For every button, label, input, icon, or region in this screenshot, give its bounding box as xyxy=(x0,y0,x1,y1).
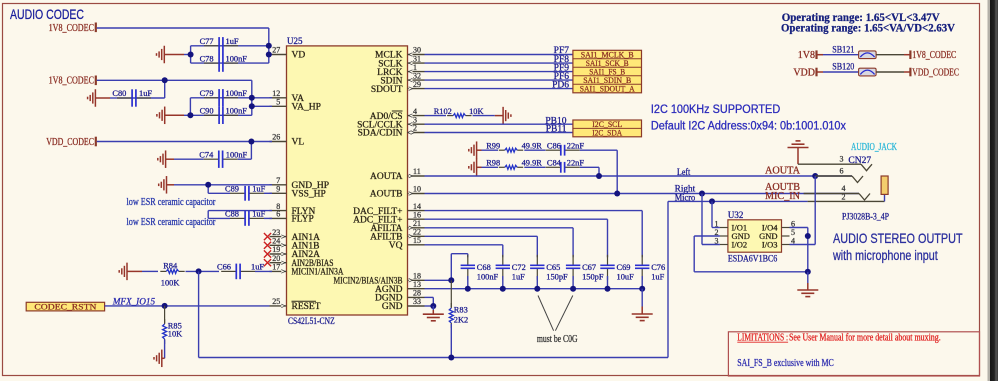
pin 24 AIN1B xyxy=(264,237,320,252)
svg-text:C84: C84 xyxy=(547,159,562,168)
net label PB11 xyxy=(546,125,567,135)
capacitor C69 xyxy=(600,255,634,289)
wire AOUTA line xyxy=(425,175,853,177)
capacitor C68 xyxy=(461,255,499,289)
net label VDD xyxy=(793,67,815,78)
svg-text:VA_HP: VA_HP xyxy=(292,103,321,113)
capacitor C66 xyxy=(217,262,264,279)
svg-text:17: 17 xyxy=(272,263,280,272)
ground (C89) xyxy=(159,176,209,194)
svg-text:U32: U32 xyxy=(728,210,744,220)
ground (C77/C78) xyxy=(157,46,191,64)
svg-text:C78: C78 xyxy=(200,54,214,63)
wire AGND rail xyxy=(425,288,643,290)
svg-text:C90: C90 xyxy=(200,107,214,116)
net label SB120 xyxy=(832,63,854,73)
svg-text:SAI_FS_B exclusive with MC: SAI_FS_B exclusive with MC xyxy=(737,358,834,369)
pin 15 VQ xyxy=(389,236,425,251)
capacitor C86 xyxy=(524,141,584,155)
svg-text:RESET: RESET xyxy=(292,302,321,312)
svg-text:SAI1_SDOUT_A: SAI1_SDOUT_A xyxy=(580,84,636,94)
net label AOUTB xyxy=(765,182,800,193)
wire 1V8 to SB121 xyxy=(817,54,859,56)
port tick VDD xyxy=(815,68,817,77)
svg-text:3: 3 xyxy=(840,155,844,164)
svg-text:with microphone input: with microphone input xyxy=(832,248,938,263)
pin 6 FLYP xyxy=(270,210,314,225)
svg-text:AUDIO STEREO OUTPUT: AUDIO STEREO OUTPUT xyxy=(833,230,963,246)
svg-text:2K2: 2K2 xyxy=(454,316,468,325)
port 1V8_CODEC (VA) xyxy=(49,76,96,87)
svg-text:Left: Left xyxy=(677,167,691,177)
svg-text:1V8_CODEC: 1V8_CODEC xyxy=(49,23,95,34)
svg-text:2: 2 xyxy=(842,192,846,201)
svg-text:1uF: 1uF xyxy=(252,210,265,219)
U25 designator xyxy=(287,36,303,46)
pin 12 VA xyxy=(270,89,305,104)
pin 30 MCLK xyxy=(375,46,424,61)
svg-text:150pF: 150pF xyxy=(582,273,604,282)
svg-text:PD6: PD6 xyxy=(552,80,569,90)
wire GND_HP row xyxy=(208,184,272,186)
svg-text:C72: C72 xyxy=(512,263,526,272)
svg-text:C88: C88 xyxy=(225,210,239,219)
junction dot bias xyxy=(448,277,454,283)
junction dot MFX xyxy=(162,303,168,309)
wire C90 row xyxy=(190,98,251,116)
wire C78 row xyxy=(191,46,269,63)
capacitor C90 xyxy=(200,107,248,125)
svg-text:VDD_CODEC: VDD_CODEC xyxy=(912,67,959,78)
ground (C80) xyxy=(88,89,117,107)
net label PF6 xyxy=(554,72,570,82)
wire U32 pin2 gnd xyxy=(694,236,808,272)
svg-text:49.9R: 49.9R xyxy=(522,159,543,168)
svg-text:10: 10 xyxy=(413,185,421,194)
capacitor C72 xyxy=(496,255,526,289)
svg-text:6: 6 xyxy=(840,167,844,176)
svg-text:See User Manual for more detai: See User Manual for more detail about mu… xyxy=(789,333,941,344)
wire 1V8_CODEC VA rail xyxy=(97,80,252,115)
junction dots 1V8 group xyxy=(188,43,272,58)
wire mic riser xyxy=(667,201,669,357)
wire DGND tie xyxy=(425,297,434,306)
solder bridge SB120 xyxy=(859,68,877,76)
capacitor C78 xyxy=(200,54,248,72)
connector I2C harness box xyxy=(573,119,642,137)
wire VDD_CODEC rail xyxy=(97,141,272,143)
svg-text:2: 2 xyxy=(413,124,417,133)
pin 5 VA_HP xyxy=(270,98,321,113)
svg-text:C89: C89 xyxy=(225,185,239,194)
svg-text:PJ3028B-3_4P: PJ3028B-3_4P xyxy=(842,212,889,222)
svg-text:R83: R83 xyxy=(454,306,468,315)
pin 8 FLYN xyxy=(270,202,316,217)
U32 value ESDA6V1BC6 xyxy=(728,255,778,265)
resistor R85 xyxy=(163,306,183,344)
wire U32 pin4 to AOUTA xyxy=(790,176,816,245)
pin 17 MICIN1/AIN3A xyxy=(270,263,344,278)
capacitor C84 xyxy=(524,159,584,173)
svg-text:22nF: 22nF xyxy=(567,141,585,150)
wire ADC_FILT+ to C69 xyxy=(425,219,608,257)
net label Left xyxy=(677,167,691,177)
capacitor C80 xyxy=(112,80,164,106)
ground (R98) xyxy=(469,159,482,177)
pin 29 SDOUT xyxy=(371,80,425,95)
connector SAI1 harness box xyxy=(573,50,642,94)
capacitor C77 xyxy=(200,37,239,55)
svg-text:11: 11 xyxy=(413,167,421,176)
wire jack pin3 xyxy=(798,163,861,165)
svg-text:1uF: 1uF xyxy=(251,262,264,271)
net label SB121 xyxy=(832,45,854,55)
ground (DGND) xyxy=(423,314,444,321)
pin 25 RESET xyxy=(270,297,321,312)
svg-text:15: 15 xyxy=(413,236,421,245)
pin 22 AFILTB xyxy=(370,228,424,243)
wire MIC_IN line xyxy=(668,200,808,202)
ground (C79/C90) xyxy=(157,107,191,125)
svg-text:R99: R99 xyxy=(486,141,500,150)
junction dots VA group xyxy=(162,77,255,118)
wire FLYN row xyxy=(208,211,272,219)
wire VQ to C72 xyxy=(425,245,503,257)
svg-text:25: 25 xyxy=(272,297,280,306)
svg-text:VDD_CODEC: VDD_CODEC xyxy=(46,137,94,148)
note SAI_FS_B xyxy=(737,358,834,369)
pin 1 LRCK xyxy=(377,63,424,78)
pin 9 VSS_HP xyxy=(270,185,326,200)
diode U32 body xyxy=(728,220,782,252)
svg-text:23: 23 xyxy=(272,228,280,237)
svg-text:100nF: 100nF xyxy=(477,273,499,282)
note operating range VA/VD xyxy=(781,20,955,34)
svg-text:C66: C66 xyxy=(217,262,231,271)
svg-text:C67: C67 xyxy=(582,263,596,272)
junction dot R83 bottom xyxy=(448,355,454,361)
port 1V8_CODEC (top) xyxy=(49,23,96,35)
pin 2 SDA/CDIN xyxy=(358,124,425,139)
wire DGND to ground xyxy=(432,306,434,314)
op-amp U25 body xyxy=(287,46,408,315)
wire jack pin2 stub xyxy=(808,194,885,201)
wire AOUTB line xyxy=(425,193,860,195)
pin 23 AIN1A xyxy=(264,228,320,243)
wire AD0 to R102 xyxy=(425,115,447,117)
svg-text:AOUTA: AOUTA xyxy=(370,172,403,182)
jack contact pin3 xyxy=(861,164,872,171)
pin 3 SCL/CCLK xyxy=(357,115,424,130)
svg-text:C74: C74 xyxy=(199,150,214,159)
svg-text:MFX_IO15: MFX_IO15 xyxy=(112,297,156,307)
wire C77 row xyxy=(191,45,269,47)
note I2C address xyxy=(651,121,846,133)
svg-text:1V8_CODEC: 1V8_CODEC xyxy=(49,76,95,87)
svg-text:SDOUT: SDOUT xyxy=(371,85,403,95)
ground (R84) xyxy=(119,263,158,281)
svg-text:1uF: 1uF xyxy=(226,37,239,46)
svg-text:U25: U25 xyxy=(287,36,303,46)
wire Right to U32 pin3 xyxy=(702,194,720,245)
ground (R85) xyxy=(154,350,162,368)
capacitor C65 xyxy=(530,255,568,289)
wire AFILTA to C67 xyxy=(425,228,574,257)
svg-text:10K: 10K xyxy=(469,107,483,116)
wire VSS_HP link xyxy=(208,185,230,194)
svg-text:C86: C86 xyxy=(547,141,561,150)
svg-text:100K: 100K xyxy=(161,278,180,287)
svg-text:1V8_CODEC: 1V8_CODEC xyxy=(912,50,956,61)
note must be C0G xyxy=(537,334,578,345)
CN27 value PJ3028B-3_4P xyxy=(842,212,889,222)
svg-text:33: 33 xyxy=(413,297,421,306)
resistor R84 xyxy=(160,261,184,287)
svg-text:VSS_HP: VSS_HP xyxy=(292,190,326,200)
ground (R99) xyxy=(469,141,482,159)
svg-text:I/O2: I/O2 xyxy=(732,240,748,250)
svg-text:I/O3: I/O3 xyxy=(762,240,778,250)
right edge strip xyxy=(988,0,998,381)
wire SAI row PF9 xyxy=(425,71,573,73)
svg-text:CN27: CN27 xyxy=(848,156,871,166)
junction dots AGND rail xyxy=(465,286,645,292)
pin 20 AIN2B/BIAS xyxy=(264,254,334,269)
ground (R102) xyxy=(503,107,511,125)
pin 31 SCLK xyxy=(378,54,424,69)
svg-text:C69: C69 xyxy=(617,263,631,272)
limitations box xyxy=(728,332,979,376)
pin 21 AFILTA xyxy=(370,219,424,234)
svg-text:low ESR ceramic capacitor: low ESR ceramic capacitor xyxy=(127,197,216,208)
svg-text:1uF: 1uF xyxy=(512,273,525,282)
svg-text:C76: C76 xyxy=(651,263,665,272)
pin 28 DGND xyxy=(375,289,424,304)
pin 4 AD0CS xyxy=(370,107,425,122)
net label MFX_IO15 xyxy=(112,297,156,307)
port VDD_CODEC xyxy=(46,137,96,148)
CN27 designator xyxy=(848,156,871,166)
svg-text:C68: C68 xyxy=(477,263,491,272)
pin 7 GND_HP xyxy=(270,176,329,191)
wire SAI row PF7 xyxy=(425,54,573,56)
svg-text:AOUTA: AOUTA xyxy=(765,166,801,177)
wire C86 to AOUTB xyxy=(580,150,618,193)
svg-text:C65: C65 xyxy=(546,263,560,272)
note LIMITATIONS xyxy=(737,333,940,344)
wire SAI row PF6 xyxy=(425,79,573,81)
net label Micro xyxy=(675,192,696,202)
pin 26 VL xyxy=(270,133,305,148)
svg-text:100nF: 100nF xyxy=(226,89,248,98)
resistor R83 xyxy=(449,280,468,357)
capacitor C89 xyxy=(225,185,272,201)
jack sleeve xyxy=(881,176,888,194)
solder bridge SB121 xyxy=(859,51,877,59)
svg-text:10K: 10K xyxy=(168,330,182,339)
ground (C74) xyxy=(158,150,204,168)
net label PF7 xyxy=(554,46,570,56)
svg-text:ESDA6V1BC6: ESDA6V1BC6 xyxy=(728,255,778,265)
svg-text:R84: R84 xyxy=(163,261,178,270)
junction dot bias node xyxy=(196,268,202,274)
wire I2C SDA row xyxy=(425,132,573,134)
svg-text:100nF: 100nF xyxy=(226,54,248,63)
svg-text:SB121: SB121 xyxy=(832,45,854,55)
svg-text:MIC_IN: MIC_IN xyxy=(765,191,800,202)
svg-text:22nF: 22nF xyxy=(567,159,585,168)
net label PB10 xyxy=(545,116,566,126)
ground (jack earth) xyxy=(788,141,809,164)
port tick VDD_CODEC right xyxy=(909,68,911,77)
note with microphone input xyxy=(832,248,938,263)
pin 14 DAC_FILT+ xyxy=(353,202,424,217)
jack contact pin6 xyxy=(852,176,863,183)
svg-text:VDD: VDD xyxy=(793,67,815,78)
svg-text:20: 20 xyxy=(272,254,280,263)
net label Right xyxy=(675,183,696,193)
svg-text:I2C 100KHz SUPPORTED: I2C 100KHz SUPPORTED xyxy=(651,104,780,116)
wire 1V8_CODEC top rail xyxy=(97,28,272,63)
svg-text:VL: VL xyxy=(292,138,305,148)
svg-text:27: 27 xyxy=(272,46,280,55)
wire U32 pin5/6 tie xyxy=(790,228,808,272)
svg-text:49.9R: 49.9R xyxy=(522,141,543,150)
svg-text:100nF: 100nF xyxy=(226,150,248,159)
wire SAI row PF8 xyxy=(425,62,573,64)
wire VA row xyxy=(190,97,272,99)
U32 designator xyxy=(728,210,744,220)
wire R102 to ground xyxy=(473,115,504,117)
pin 18 MICIN2/BIAS/AIN3B xyxy=(334,272,425,287)
resistor R98 xyxy=(482,159,543,170)
capacitor C67 xyxy=(566,255,604,289)
svg-text:R102: R102 xyxy=(434,107,452,116)
svg-text:AUDIO_JACK: AUDIO_JACK xyxy=(851,142,898,153)
note operating range VL xyxy=(782,10,940,24)
svg-text:1uF: 1uF xyxy=(139,89,152,98)
junction dot DGND xyxy=(430,303,436,309)
svg-text:10uF: 10uF xyxy=(617,273,635,282)
capacitor C88 xyxy=(208,210,272,226)
note I2C 100KHz xyxy=(651,104,780,116)
net label AUDIO_JACK xyxy=(851,142,898,153)
svg-text:26: 26 xyxy=(272,133,280,142)
svg-text:C79: C79 xyxy=(200,89,214,98)
port VDD_CODEC (SB) xyxy=(912,67,959,78)
wire SAI row PD6 xyxy=(425,88,573,90)
svg-text:1uF: 1uF xyxy=(651,273,664,282)
note AUDIO STEREO OUTPUT xyxy=(833,230,963,246)
port tick 1V8 xyxy=(815,50,817,59)
wire VDD to SB120 xyxy=(817,71,859,73)
svg-text:R98: R98 xyxy=(486,159,500,168)
wire jack pin4 stub xyxy=(804,193,859,195)
pin 16 ADC_FILT+ xyxy=(353,210,424,225)
svg-text:I2C_SDA: I2C_SDA xyxy=(592,128,623,138)
pin 33 GND xyxy=(382,297,425,312)
svg-text:Operating range: 1.65<VA/VD<2.: Operating range: 1.65<VA/VD<2.63V xyxy=(781,20,955,34)
jack pin numbers xyxy=(840,155,846,202)
wire I2C SCL row xyxy=(425,123,573,125)
title AUDIO CODEC xyxy=(10,6,84,22)
note low ESR 2 xyxy=(127,217,216,228)
svg-text:VQ: VQ xyxy=(389,241,403,251)
net label 1V8 xyxy=(798,50,815,61)
svg-text:CS42L51-CNZ: CS42L51-CNZ xyxy=(288,317,335,327)
wire SB120 to VDD_CODEC xyxy=(876,71,910,73)
svg-text:AUDIO CODEC: AUDIO CODEC xyxy=(10,6,84,22)
net label PF8 xyxy=(554,55,570,65)
svg-text:1V8: 1V8 xyxy=(798,50,815,61)
pin 11 AOUTA xyxy=(370,167,425,182)
wire SB121 to 1V8_CODEC xyxy=(876,54,910,56)
resistor R102 xyxy=(434,107,484,118)
ground (AGND rail) xyxy=(632,314,653,321)
svg-text:PB11: PB11 xyxy=(546,125,567,135)
svg-text:5: 5 xyxy=(276,98,280,107)
junction dots audio lines xyxy=(596,173,818,204)
svg-text:must be C0G: must be C0G xyxy=(537,334,578,345)
svg-text:150pF: 150pF xyxy=(546,273,568,282)
svg-text:FLYP: FLYP xyxy=(292,215,314,225)
pin 27 VD xyxy=(270,46,306,61)
wire MICIN2 bias jog xyxy=(425,254,468,281)
port 1V8_CODEC (SB) xyxy=(912,50,956,61)
U25 value CS42L51-CNZ xyxy=(288,317,335,327)
port tick 1V8_CODEC right xyxy=(909,50,911,59)
junction dots U32 xyxy=(805,233,811,275)
pin 10 AOUTB xyxy=(370,185,425,200)
net label AOUTA xyxy=(765,166,801,177)
svg-text:GND: GND xyxy=(382,302,403,312)
junction dot GND_HP xyxy=(205,182,211,188)
svg-text:VD: VD xyxy=(292,51,306,61)
svg-text:SB120: SB120 xyxy=(832,63,854,73)
U32 pins xyxy=(715,219,796,249)
svg-text:29: 29 xyxy=(413,80,421,89)
wire Micro to U32 pin1 xyxy=(712,201,720,227)
svg-text:low ESR ceramic capacitor: low ESR ceramic capacitor xyxy=(127,217,216,228)
net label MIC_IN xyxy=(765,191,800,202)
svg-text:13: 13 xyxy=(413,280,421,289)
wire bias node down xyxy=(199,271,668,357)
wire DAC_FILT+ to C76 xyxy=(425,211,643,258)
wire R84 to C66 xyxy=(186,270,220,272)
note must be C0G callout xyxy=(538,296,573,331)
svg-text:100nF: 100nF xyxy=(226,107,248,116)
wire MFX_IO15 xyxy=(105,305,270,307)
resistor R99 xyxy=(482,141,543,152)
svg-text:SDA/CDIN: SDA/CDIN xyxy=(358,129,403,139)
svg-text:C80: C80 xyxy=(112,89,126,98)
svg-text:Default I2C Address:0x94: 0b:1: Default I2C Address:0x94: 0b:1001.010x xyxy=(651,121,846,133)
wire C84 to AOUTA xyxy=(580,167,599,176)
capacitor C79 xyxy=(200,89,248,107)
wire AGND rail to ground xyxy=(641,289,643,314)
net label PF9 xyxy=(554,63,570,73)
wire R85 to ground xyxy=(162,340,165,359)
jack contact pin4 xyxy=(859,194,870,201)
wire VA_HP row xyxy=(252,105,272,107)
wire jack pin6 stub xyxy=(815,175,852,177)
capacitor C74 xyxy=(199,150,247,168)
svg-text:9: 9 xyxy=(276,185,280,194)
note low ESR 1 xyxy=(127,197,216,208)
svg-text:AOUTB: AOUTB xyxy=(370,190,403,200)
svg-text:6: 6 xyxy=(276,210,280,219)
svg-text:24: 24 xyxy=(272,237,280,246)
